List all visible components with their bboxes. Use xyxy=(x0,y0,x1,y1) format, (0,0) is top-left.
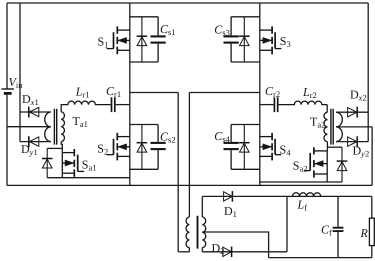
wire center tap left xyxy=(7,126,51,128)
wire S4 cell top rail xyxy=(231,124,260,126)
wire S2 cell top rail xyxy=(130,124,158,126)
diode D2 xyxy=(223,247,232,258)
wire secondary top lead xyxy=(201,196,203,217)
svg-text:Lf: Lf xyxy=(297,198,308,213)
wire output bottom rail xyxy=(269,257,372,259)
svg-text:D1: D1 xyxy=(224,204,237,219)
svg-text:S3: S3 xyxy=(280,34,291,49)
transistor Sa1 xyxy=(62,149,84,177)
svg-text:S1: S1 xyxy=(98,34,109,49)
svg-text:Lr2: Lr2 xyxy=(302,85,317,100)
wire left margin upper (Vin branch) xyxy=(6,3,8,89)
transformer Ta1 xyxy=(45,109,65,145)
transistor Sa2 xyxy=(304,147,327,177)
wire Sa1 cell bottom xyxy=(47,177,130,179)
capacitor Cr1 xyxy=(112,97,115,112)
wire Sa2 cell top xyxy=(327,146,342,148)
diode S2 body xyxy=(137,125,148,170)
diode D1 xyxy=(224,191,233,202)
svg-text:Cr2: Cr2 xyxy=(265,84,280,99)
diode Sa1 clamp xyxy=(42,148,53,177)
svg-text:R: R xyxy=(360,226,369,240)
diode Dx1 xyxy=(29,107,39,118)
wire right leg vertical xyxy=(259,3,261,185)
capacitor Cr2 xyxy=(274,97,277,112)
svg-text:Cs4: Cs4 xyxy=(214,129,230,144)
wire primary left drop xyxy=(177,93,179,252)
transformer T output xyxy=(186,216,206,249)
capacitor Cs2 xyxy=(151,125,166,170)
wire D2 riser xyxy=(286,196,288,251)
diode S1 body xyxy=(137,17,148,62)
wire clamp bus left xyxy=(19,3,21,142)
wire Sa1 cell top xyxy=(47,147,62,149)
wire S4 cell bottom rail xyxy=(231,168,260,170)
svg-text:Sa1: Sa1 xyxy=(82,157,97,172)
svg-text:Ta2: Ta2 xyxy=(310,115,325,130)
capacitor Cs3 xyxy=(224,17,239,62)
wire Dy2 row xyxy=(336,141,368,143)
wire left leg vertical xyxy=(129,3,131,185)
svg-text:Cs1: Cs1 xyxy=(160,22,176,37)
svg-text:Dx2: Dx2 xyxy=(350,87,367,102)
wire clamp bus right xyxy=(367,3,369,142)
svg-text:Vin: Vin xyxy=(9,75,24,90)
transistor S1 xyxy=(107,26,130,54)
svg-text:Cr1: Cr1 xyxy=(106,84,121,99)
wire primary top drop xyxy=(188,93,190,218)
resistor R xyxy=(369,218,374,245)
svg-text:Dx1: Dx1 xyxy=(22,92,39,107)
wire cross left xyxy=(130,92,178,94)
svg-text:D2: D2 xyxy=(212,241,225,256)
wire left margin lower xyxy=(6,95,8,186)
transistor S2 xyxy=(107,133,130,161)
svg-text:Sa2: Sa2 xyxy=(293,158,308,173)
wire S3 cell top rail xyxy=(231,16,260,18)
wire Sa1 source drop xyxy=(61,173,63,178)
wire primary bottom lead xyxy=(188,248,190,252)
wire top rail xyxy=(7,2,368,4)
diode Dx2 xyxy=(348,107,358,118)
svg-text:Cf: Cf xyxy=(321,223,332,238)
diode S3 body xyxy=(239,17,250,62)
wire Lr2 down lead xyxy=(326,105,328,113)
wire secondary center tap out xyxy=(202,232,268,258)
wire D2 row xyxy=(202,251,287,253)
wire center tap right xyxy=(336,126,372,128)
transformer Ta2 xyxy=(324,109,342,145)
wire primary bottom jog xyxy=(178,251,189,253)
inductor Lf xyxy=(293,193,321,197)
wire Ta1 secondary bottom lead xyxy=(61,142,62,153)
capacitor Cs4 xyxy=(224,125,239,170)
svg-text:Cs3: Cs3 xyxy=(214,23,230,38)
wire Dy1 row xyxy=(20,141,51,143)
wire Ta1 secondary top lead xyxy=(61,105,62,112)
wire S1 cell bottom rail xyxy=(130,61,158,63)
wire Dx2 row xyxy=(336,111,368,113)
wire S3 cell bottom rail xyxy=(231,61,260,63)
wire S2 cell bottom rail xyxy=(130,168,158,170)
svg-text:S4: S4 xyxy=(280,143,292,158)
transistor S4 xyxy=(260,133,282,161)
svg-text:Lr1: Lr1 xyxy=(75,85,90,100)
wire output right edge lower xyxy=(371,246,373,258)
wire Dx1 row xyxy=(20,111,51,113)
svg-text:Ta1: Ta1 xyxy=(73,114,88,129)
svg-text:Cs2: Cs2 xyxy=(160,130,176,145)
wire Ta2 primary bottom lead xyxy=(326,142,328,151)
wire Cr2 lead from right leg xyxy=(260,104,274,106)
wire tap drop right margin xyxy=(371,127,373,186)
inductor Lr2 xyxy=(279,101,328,104)
diode Dy2 xyxy=(348,136,358,147)
svg-text:S2: S2 xyxy=(97,142,108,157)
wire output right edge upper xyxy=(371,196,373,218)
wire bottom bus xyxy=(7,184,372,186)
wire Sa2 source drop xyxy=(326,174,328,182)
wire D1 row / output top xyxy=(202,195,371,197)
wire Cr1 to left leg xyxy=(116,104,130,106)
svg-text:Dy2: Dy2 xyxy=(353,144,370,159)
wire cross right xyxy=(189,92,259,94)
capacitor Cf xyxy=(333,196,344,257)
transistor S3 xyxy=(260,26,282,54)
inductor Lr1 xyxy=(62,101,110,104)
diode S4 body xyxy=(239,125,250,170)
diode Sa2 clamp xyxy=(337,147,348,182)
diode Dy1 xyxy=(29,136,39,147)
wire S1 cell top rail xyxy=(130,16,158,18)
battery Vin xyxy=(2,89,14,93)
capacitor Cs1 xyxy=(151,17,166,62)
wire secondary bottom lead xyxy=(201,248,203,252)
wire Sa2 cell bottom xyxy=(260,181,342,183)
